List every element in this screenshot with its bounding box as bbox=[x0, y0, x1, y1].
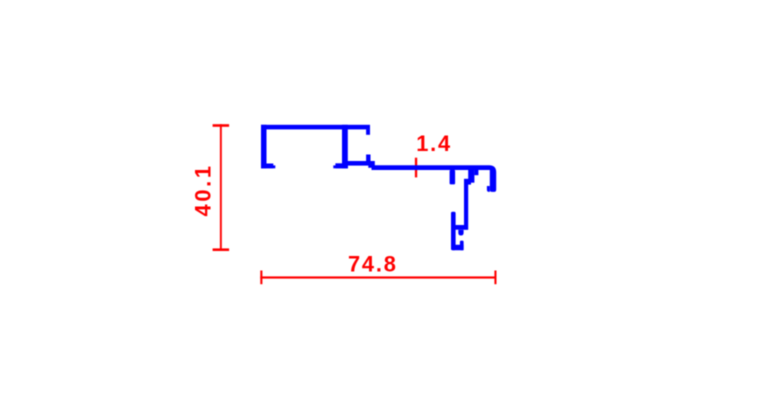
svg-text:1.4: 1.4 bbox=[416, 131, 452, 156]
svg-text:74.8: 74.8 bbox=[348, 252, 398, 277]
svg-text:40.1: 40.1 bbox=[190, 163, 215, 216]
